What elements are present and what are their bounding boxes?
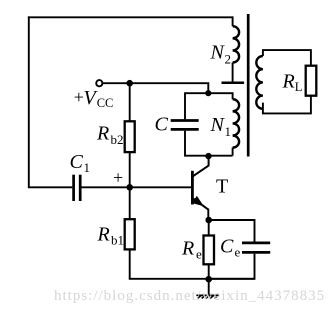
svg-text:C: C (220, 236, 234, 258)
svg-text:https://blog.csdn.net/weixin_4: https://blog.csdn.net/weixin_44378835 (54, 288, 325, 304)
terminal +Vcc (open circle) (96, 80, 102, 86)
wire: left vertical side (28, 16, 30, 187)
svg-text:L: L (295, 80, 303, 94)
svg-text:2: 2 (225, 52, 232, 67)
wire: Rb2 upper lead (129, 83, 131, 121)
wire: C branch lower lead (184, 131, 186, 157)
inductor N2 (feedback winding, 3 arcs) (233, 26, 240, 62)
wire: base lead (130, 186, 192, 188)
node: collector junction (205, 153, 211, 159)
ground symbol (196, 295, 219, 298)
resistor RL (306, 66, 317, 96)
wire: Rb1 lower lead (129, 249, 131, 278)
svg-text:R: R (96, 123, 109, 145)
wire: ground lead (208, 279, 210, 295)
svg-text:1: 1 (225, 124, 232, 139)
svg-text:C: C (70, 151, 84, 173)
capacitor Ce (242, 242, 270, 245)
wire: tank top horizontal (185, 92, 233, 94)
svg-text:C: C (155, 114, 169, 136)
node: Vcc/Rb2 junction (126, 80, 133, 87)
transistor T emitter lead with arrow (193, 199, 208, 210)
wire: N2 bottom lead (232, 63, 234, 82)
resistor Rb1 (125, 219, 135, 249)
wire: N2 top lead (232, 16, 234, 26)
wire: secondary top (263, 50, 311, 66)
wire: Ce branch bottom (209, 254, 255, 279)
wire: Rb2 lower lead (129, 152, 131, 187)
wire: bottom horizontal (129, 278, 255, 280)
wire: junction to tank top (130, 83, 209, 93)
transistor T collector lead (193, 156, 209, 176)
N2 open-end terminal bar (222, 81, 245, 84)
wire: Re upper lead (208, 220, 210, 236)
svg-text:R: R (97, 224, 110, 246)
wire: secondary bottom (263, 95, 311, 113)
wire: N1 top lead (232, 92, 234, 99)
node: tank top junction (205, 90, 211, 96)
capacitor C (tank) (171, 119, 199, 122)
wire: Ce branch top (209, 220, 255, 242)
inductor N1 (tank winding, 4 arcs) (233, 99, 240, 147)
node: ground junction (205, 276, 212, 283)
svg-text:e: e (196, 247, 202, 262)
node: base junction (126, 184, 133, 191)
transistor T base bar (191, 171, 194, 205)
resistor Re (204, 236, 215, 265)
svg-text:R: R (282, 71, 295, 93)
svg-text:b1: b1 (111, 233, 124, 248)
wire: N1 bottom lead (232, 148, 234, 156)
capacitor C1 (coupling) left wire (28, 186, 72, 188)
wire: Vcc terminal to junction (102, 82, 129, 84)
svg-text:CC: CC (97, 96, 114, 110)
wire: C1 to base junction (82, 186, 130, 188)
wire: tank bottom horizontal (185, 155, 233, 157)
wire: C branch upper lead (184, 92, 186, 119)
wire: top horizontal (28, 16, 233, 18)
wire: Re lower lead (208, 264, 210, 279)
svg-text:N: N (210, 114, 226, 136)
transformer core (247, 14, 250, 157)
wire: emitter vertical (207, 209, 209, 220)
svg-text:+: + (113, 167, 123, 187)
capacitor C1 plates (72, 175, 75, 201)
svg-text:N: N (210, 42, 226, 64)
svg-text:+: + (74, 87, 84, 107)
svg-text:1: 1 (84, 160, 91, 175)
resistor Rb2 (125, 121, 135, 152)
svg-text:R: R (181, 238, 194, 260)
svg-text:b2: b2 (111, 132, 124, 147)
node: emitter junction (205, 217, 212, 224)
svg-text:T: T (216, 176, 228, 198)
inductor secondary winding (4 arcs) (256, 56, 263, 109)
svg-text:e: e (235, 245, 241, 260)
wire: Rb1 upper lead (129, 187, 131, 219)
